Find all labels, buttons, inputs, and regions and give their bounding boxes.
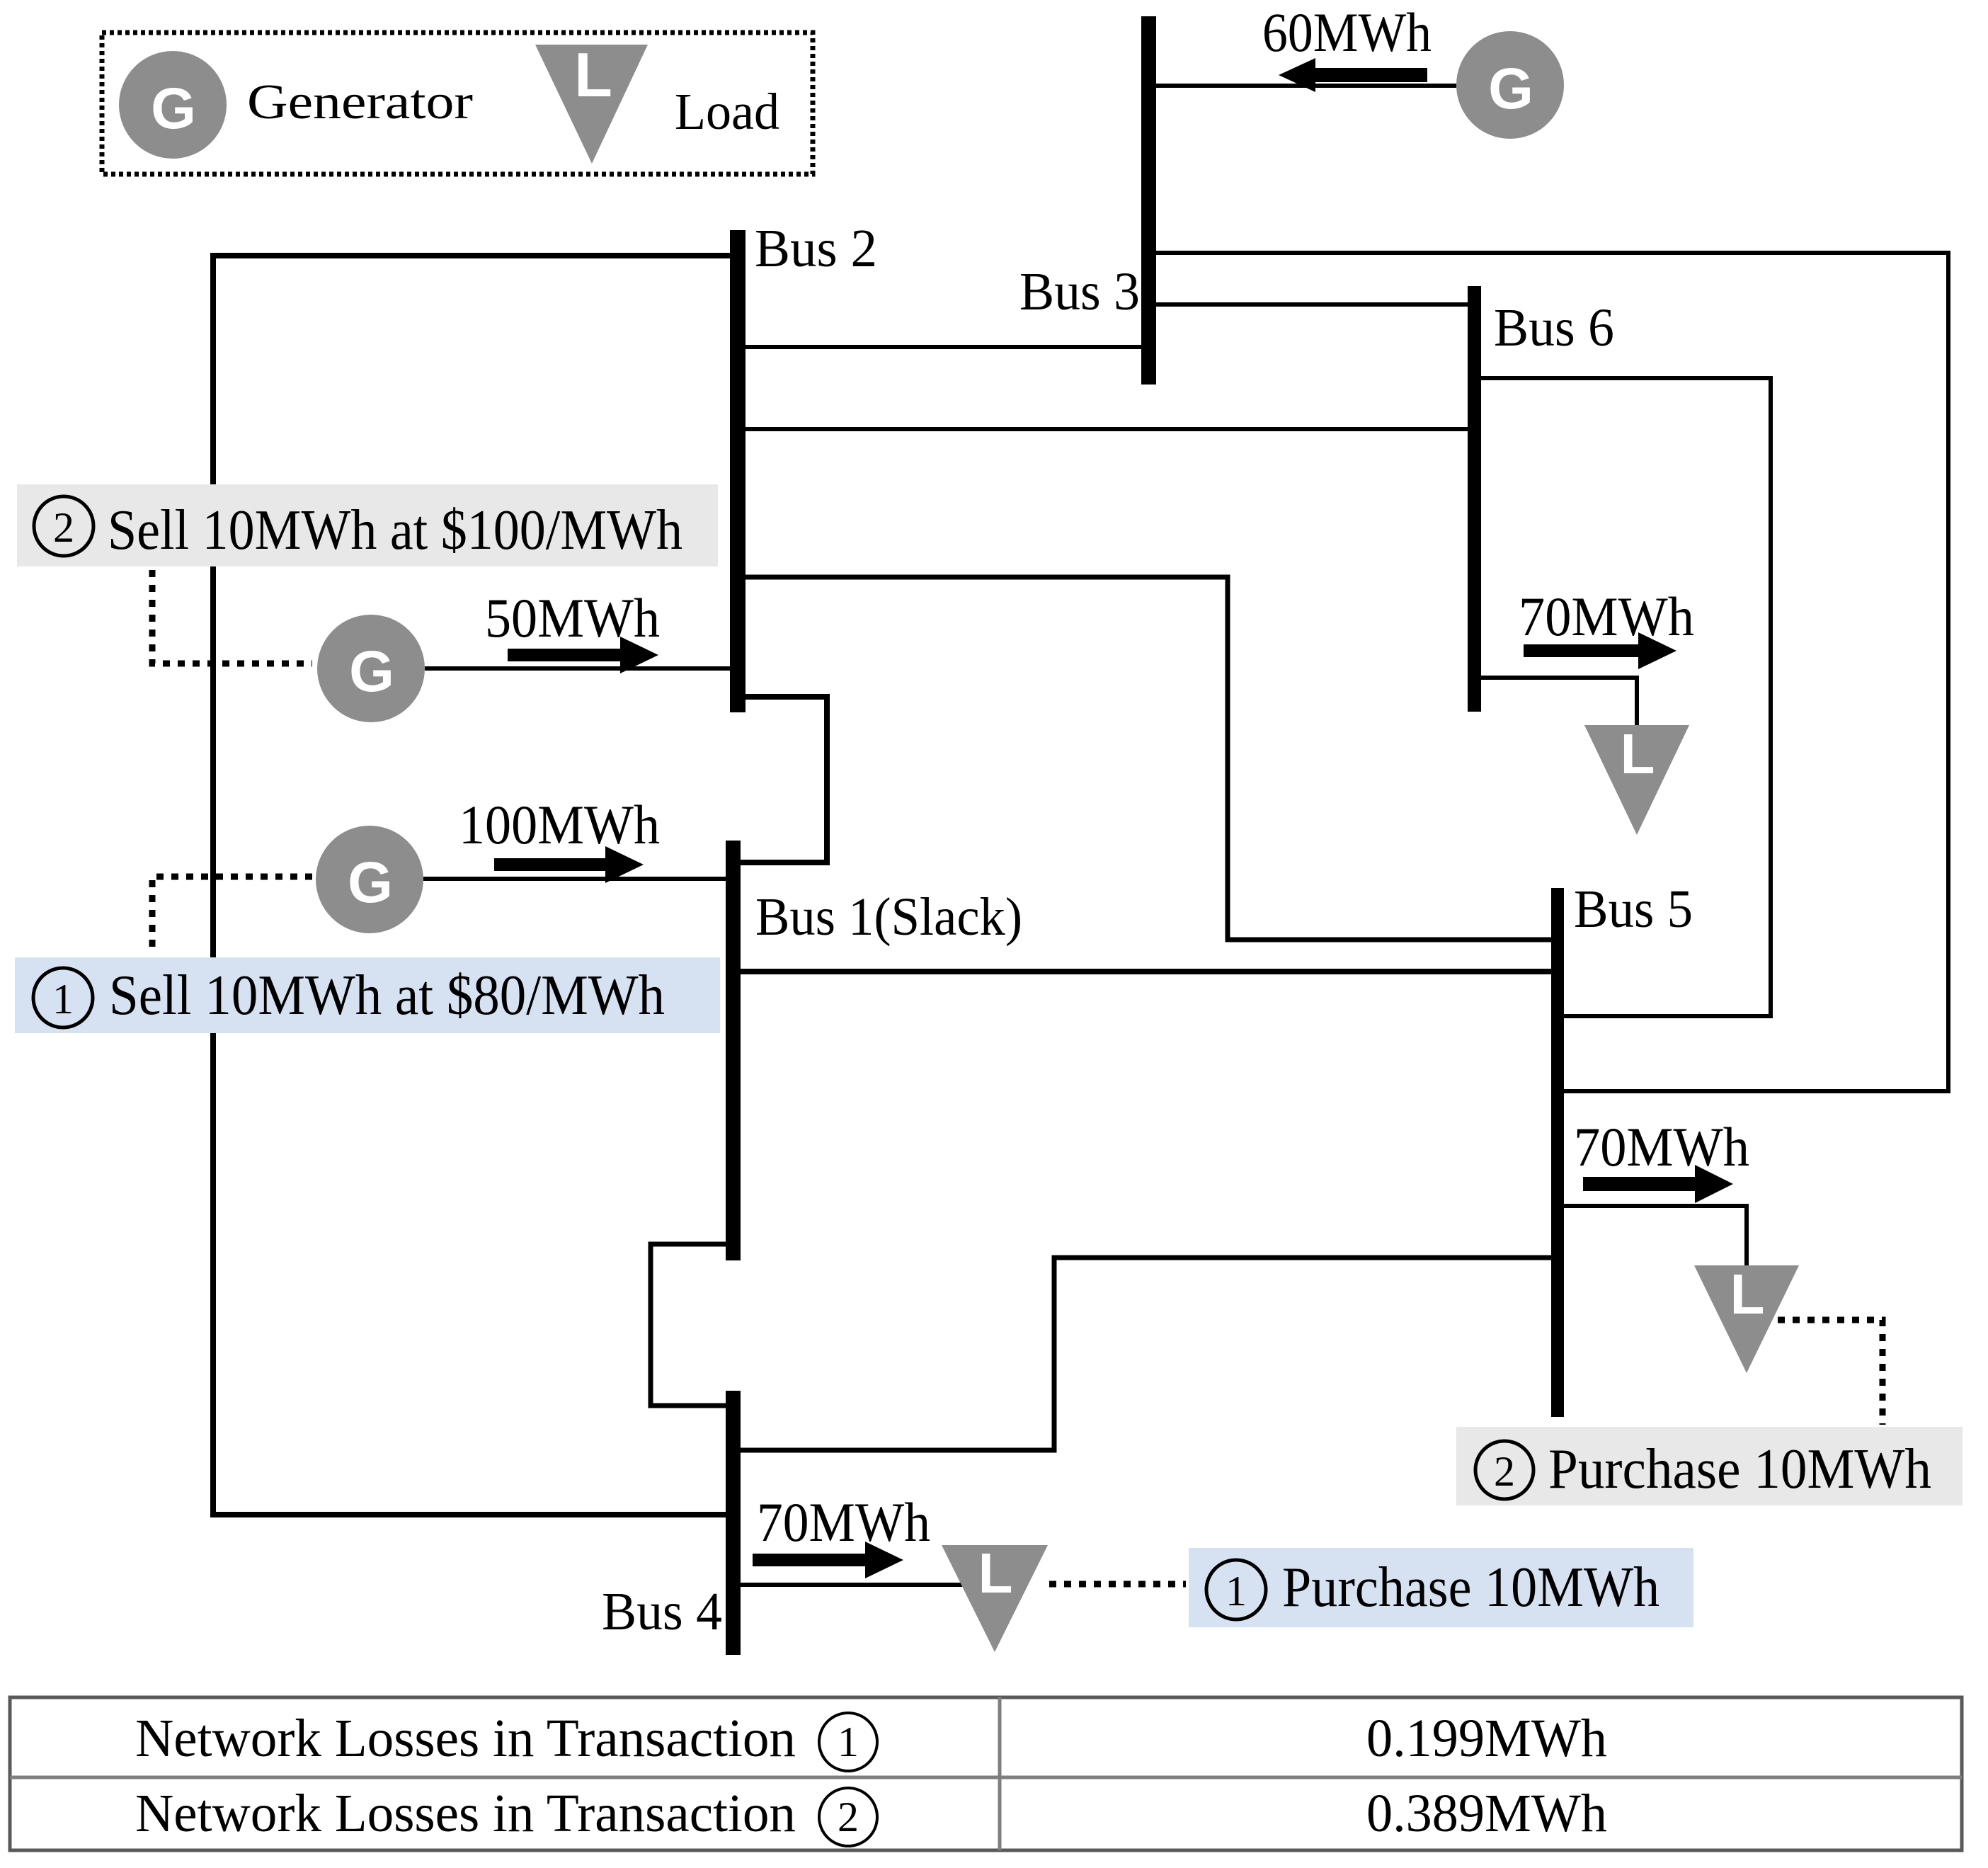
svg-text:2: 2 [53, 504, 74, 551]
svg-text:1: 1 [52, 976, 74, 1023]
wire generator G1 to Bus2 [425, 666, 730, 671]
arrow 60MWh leftward [1279, 58, 1427, 92]
bus bar Bus 5 [1551, 888, 1564, 1417]
svg-text:Bus 2: Bus 2 [755, 219, 877, 278]
arrow 70MWh at Bus4 rightward [753, 1542, 903, 1578]
bus bar Bus 3 [1141, 16, 1156, 385]
svg-text:50MWh: 50MWh [485, 587, 660, 649]
wire Bus2 to Bus6 [745, 427, 1468, 431]
legend box [102, 33, 813, 174]
svg-text:0.389MWh: 0.389MWh [1366, 1784, 1607, 1843]
generator G3 top right [1456, 31, 1564, 139]
svg-text:Bus 6: Bus 6 [1494, 298, 1614, 358]
svg-text:L: L [1621, 722, 1655, 785]
load L6 [1584, 722, 1689, 835]
dotted connector transaction 2 sell to G1 [152, 570, 312, 664]
svg-text:G: G [349, 639, 394, 704]
svg-text:70MWh: 70MWh [757, 1491, 930, 1553]
svg-text:Sell 10MWh at $100/MWh: Sell 10MWh at $100/MWh [108, 499, 682, 562]
load L5 [1694, 1263, 1799, 1373]
arrow 70MWh at Bus6 rightward [1524, 632, 1676, 669]
svg-text:L: L [574, 40, 612, 110]
load L4 [942, 1542, 1048, 1652]
wire Bus6 to load L6 [1481, 678, 1637, 725]
dotted connector G2 to transaction 1 sell [152, 877, 312, 955]
label transaction 1 sell [15, 957, 720, 1033]
dotted connector load L5 to transaction 2 purchase [1778, 1320, 1883, 1425]
wire Bus4 to load L4 [741, 1583, 995, 1587]
svg-text:L: L [1730, 1263, 1765, 1326]
svg-text:Network Losses in Transaction: Network Losses in Transaction [135, 1784, 796, 1843]
svg-text:70MWh: 70MWh [1574, 1116, 1749, 1178]
svg-text:Generator: Generator [247, 75, 473, 130]
svg-text:70MWh: 70MWh [1519, 586, 1694, 647]
wire Bus1 to Bus5 [741, 969, 1551, 974]
svg-text:2: 2 [838, 1794, 859, 1840]
wire Bus2 left loop to Bus4 [213, 256, 730, 1515]
svg-text:Sell 10MWh at $80/MWh: Sell 10MWh at $80/MWh [109, 964, 665, 1027]
svg-text:Bus 1(Slack): Bus 1(Slack) [755, 887, 1022, 947]
svg-text:2: 2 [1494, 1448, 1515, 1495]
svg-text:Load: Load [675, 83, 779, 140]
arrow 50MWh rightward [508, 637, 658, 673]
label transaction 2 sell [17, 484, 718, 566]
svg-text:1: 1 [838, 1719, 859, 1765]
wire generator G2 to Bus1 [423, 877, 726, 881]
bus bar Bus 2 [730, 230, 745, 712]
svg-text:Bus 3: Bus 3 [1019, 262, 1140, 321]
svg-text:Bus 5: Bus 5 [1574, 879, 1693, 939]
svg-text:60MWh: 60MWh [1262, 1, 1432, 63]
bus bar Bus 4 [726, 1391, 741, 1655]
svg-text:Network Losses in Transaction: Network Losses in Transaction [135, 1709, 796, 1768]
wire Bus3 to Bus6 [1156, 302, 1468, 307]
legend generator symbol [119, 51, 227, 159]
wire Bus4 to Bus5 [741, 1258, 1551, 1450]
wire Bus3 right loop to Bus5 [1156, 253, 1948, 1091]
svg-text:100MWh: 100MWh [459, 794, 660, 855]
generator G2 [316, 826, 423, 933]
table network losses [10, 1697, 1962, 1850]
svg-text:Purchase 10MWh: Purchase 10MWh [1548, 1438, 1931, 1500]
svg-text:L: L [978, 1542, 1013, 1605]
label transaction 1 purchase [1189, 1548, 1693, 1627]
wire Bus6 right loop to Bus5 [1481, 378, 1771, 1016]
arrow 100MWh rightward [494, 846, 644, 883]
label transaction 2 purchase [1456, 1427, 1963, 1505]
generator G1 [317, 615, 425, 722]
wire generator G3 to Bus3 [1156, 84, 1456, 88]
dotted connector load L4 to transaction 1 purchase [1049, 1581, 1186, 1588]
svg-text:1: 1 [1226, 1568, 1247, 1614]
bus bar Bus 6 [1468, 286, 1481, 712]
svg-text:G: G [348, 850, 393, 915]
svg-text:G: G [1488, 57, 1533, 121]
wire Bus2 to Bus5 [745, 577, 1551, 940]
table row 2 label [135, 1784, 877, 1846]
wire Bus5 to load L5 [1564, 1206, 1747, 1265]
wire Bus2 to Bus3 [745, 345, 1141, 349]
svg-text:Purchase 10MWh: Purchase 10MWh [1282, 1556, 1659, 1619]
svg-text:G: G [151, 76, 196, 141]
svg-text:Bus 4: Bus 4 [602, 1582, 722, 1641]
wire Bus1 to Bus2 jog [741, 697, 827, 862]
table row 1 label [135, 1709, 877, 1771]
svg-text:0.199MWh: 0.199MWh [1366, 1709, 1607, 1768]
bus bar Bus 1 [726, 841, 741, 1260]
legend load symbol [535, 40, 648, 164]
wire Bus1 to Bus4 jog [651, 1244, 726, 1406]
arrow 70MWh at Bus5 rightward [1583, 1165, 1733, 1203]
